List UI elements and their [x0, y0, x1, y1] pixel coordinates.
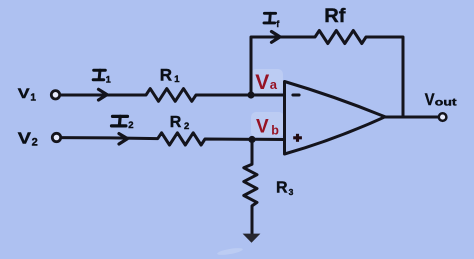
svg-text:R: R [170, 114, 182, 131]
svg-text:a: a [270, 77, 278, 92]
svg-text:V: V [18, 85, 31, 101]
svg-text:R: R [160, 65, 172, 84]
svg-text:V: V [18, 130, 32, 147]
svg-text:R: R [276, 180, 288, 197]
svg-text:1: 1 [106, 74, 111, 84]
svg-text:Rf: Rf [324, 6, 346, 27]
svg-text:out: out [435, 97, 458, 108]
svg-text:3: 3 [289, 187, 294, 197]
svg-text:V: V [425, 91, 435, 109]
svg-text:1: 1 [30, 93, 36, 104]
svg-text:V: V [256, 116, 269, 137]
svg-text:2: 2 [128, 120, 133, 131]
svg-text:2: 2 [32, 137, 38, 149]
svg-text:V: V [255, 71, 269, 94]
svg-text:2: 2 [184, 121, 189, 132]
svg-text:b: b [271, 124, 279, 138]
svg-text:1: 1 [174, 74, 180, 85]
